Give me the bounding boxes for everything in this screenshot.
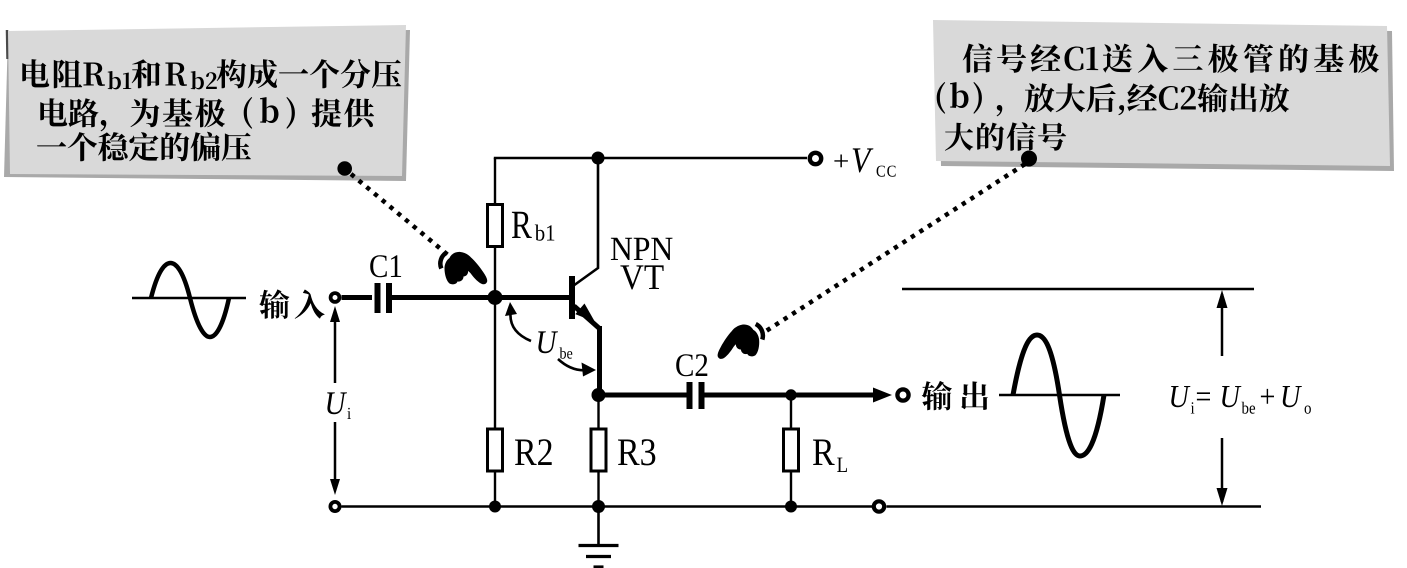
label +Vcc <box>834 148 895 176</box>
left callout box shadow <box>4 30 410 181</box>
output wire with arrow <box>704 388 892 403</box>
right callout text line1: 信号经C1送入三极管的基极 <box>963 44 1379 73</box>
node: base junction <box>488 290 503 305</box>
label 输出 <box>922 381 988 411</box>
bottom wire <box>342 505 873 507</box>
label RL <box>813 440 847 473</box>
output terminal <box>897 389 908 400</box>
left callout anchor dot <box>337 161 352 176</box>
bottom-right terminal <box>874 501 884 511</box>
wire Rb1 branch <box>494 158 496 298</box>
resistor Rb1 <box>488 205 503 247</box>
node: collector junction on top wire <box>592 152 605 165</box>
collector wire <box>573 158 598 286</box>
input sine wave <box>132 263 246 337</box>
node: R3 bottom (ground) <box>592 500 605 513</box>
capacitor C1 <box>378 283 390 313</box>
ground symbol <box>579 507 619 568</box>
wire input terminal to C1 <box>342 295 373 300</box>
capacitor C2 <box>690 382 702 409</box>
wire C1 to transistor base <box>392 295 570 300</box>
left callout box <box>8 25 406 176</box>
label R3 <box>618 439 655 465</box>
wire RL branch <box>790 395 792 507</box>
right callout box <box>933 20 1390 166</box>
right callout text line3: 大的信号 <box>945 122 1066 150</box>
left callout text line2: 电路，为基极（b）提供 <box>40 97 374 131</box>
label Ube <box>538 331 572 358</box>
resistor R2 <box>488 429 503 471</box>
node: emitter junction <box>592 388 606 402</box>
right measure arrow (double headed) <box>1221 294 1224 502</box>
right callout box shadow <box>938 25 1394 171</box>
output sine wave <box>999 335 1120 456</box>
node: RL bottom <box>785 501 797 513</box>
label Ui=Ube+Uo <box>1171 386 1311 414</box>
+Vcc terminal <box>810 153 821 164</box>
resistor RL <box>784 429 799 471</box>
label Ui <box>327 392 351 419</box>
Ui measure arrow (double headed) <box>334 311 337 490</box>
node: RL top junction <box>785 389 796 400</box>
bottom wire right of terminal <box>887 505 1262 507</box>
wire emitter node to C2 <box>599 393 688 398</box>
label VT <box>620 265 663 289</box>
wire R2 branch <box>494 298 496 507</box>
Ube arrow to emitter <box>558 359 588 370</box>
label C2 <box>676 354 707 376</box>
left callout text line3: 一个稳定的偏压 <box>37 132 251 162</box>
input terminal <box>331 293 340 302</box>
dotted leader from right callout to hand <box>763 164 1025 333</box>
wire R3 branch <box>597 395 599 507</box>
label Rb1 <box>512 212 554 241</box>
label NPN <box>611 238 673 260</box>
top supply wire <box>494 157 807 159</box>
right callout anchor dot <box>1021 151 1037 167</box>
resistor R3 <box>591 429 606 471</box>
label R2 <box>515 439 552 465</box>
right reference line top <box>902 288 1254 291</box>
transistor emitter with arrow <box>574 304 600 396</box>
label C1 <box>370 255 401 277</box>
bottom-left terminal <box>330 502 339 511</box>
pointer hand right <box>715 323 765 359</box>
transistor VT base bar <box>569 276 575 319</box>
label 输入 <box>259 289 324 319</box>
right callout text line2: （b），放大后,经C2输出放 <box>937 82 1289 116</box>
Ube arrow to base node <box>510 309 531 341</box>
dotted leader from left callout to hand <box>351 174 448 255</box>
node: R2 bottom <box>489 501 501 513</box>
pointer hand left <box>440 252 487 284</box>
left callout box edge scratch <box>6 30 9 59</box>
left callout text line1: 电阻Rb1和Rb2构成一个分压 <box>22 59 401 90</box>
